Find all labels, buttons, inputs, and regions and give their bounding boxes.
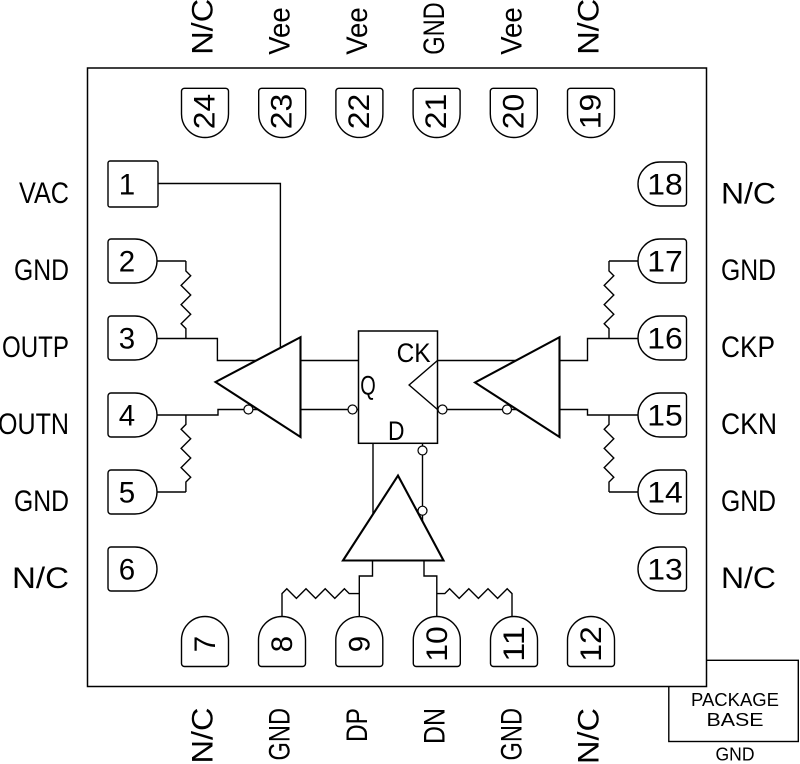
svg-text:GND: GND — [716, 744, 755, 764]
svg-text:N/C: N/C — [573, 708, 606, 764]
resistor R1 (pin2-pin3) — [181, 261, 191, 339]
pin 20 — [490, 88, 537, 137]
svg-text:3: 3 — [119, 323, 135, 356]
bubble at buffer A inverting output — [244, 405, 253, 414]
svg-text:DP: DP — [341, 708, 374, 742]
svg-text:14: 14 — [647, 477, 683, 510]
svg-text:CKN: CKN — [721, 408, 777, 441]
op-amp buffer C (data) — [343, 476, 444, 561]
chip package outline — [88, 68, 707, 687]
pin 22 — [336, 88, 383, 137]
wire flip-flop CK to buffer B (top) — [438, 360, 517, 362]
svg-text:15: 15 — [647, 400, 683, 433]
wire flip-flop D input — [372, 443, 374, 514]
flip-flop clock edge wedge — [409, 361, 437, 410]
svg-text:N/C: N/C — [721, 178, 776, 211]
wire pin3 OUTP to buffer A — [157, 339, 256, 361]
wire buffer A to flip-flop Q (top) — [301, 360, 359, 362]
svg-text:N/C: N/C — [187, 0, 220, 55]
svg-text:18: 18 — [647, 169, 683, 202]
svg-text:CK: CK — [397, 338, 431, 368]
resistor R3 (pin17-pin16) — [604, 261, 614, 339]
pin 1 — [108, 161, 158, 207]
pin 9 — [336, 617, 383, 667]
pin 16 — [638, 316, 686, 360]
pin 14 — [638, 470, 687, 514]
pin 6 — [108, 547, 157, 591]
svg-text:10: 10 — [421, 626, 454, 662]
pin 8 — [259, 616, 306, 666]
svg-text:1: 1 — [119, 169, 135, 202]
svg-text:DN: DN — [418, 708, 451, 744]
svg-text:11: 11 — [498, 626, 531, 662]
svg-text:23: 23 — [266, 94, 299, 130]
pin 19 — [568, 88, 615, 137]
wire buffer C right output to pin10 DN — [424, 561, 437, 617]
wire pin4 OUTN to buffer A — [157, 410, 258, 416]
svg-text:8: 8 — [266, 636, 299, 652]
svg-text:20: 20 — [497, 94, 530, 130]
pin 5 — [108, 470, 157, 514]
pin 3 — [108, 316, 157, 360]
svg-text:GND: GND — [721, 485, 776, 518]
svg-text:7: 7 — [189, 636, 222, 652]
bubble at buffer B inverting output — [503, 405, 512, 414]
svg-text:9: 9 — [343, 636, 376, 652]
svg-text:Vee: Vee — [495, 7, 528, 55]
pin 23 — [259, 88, 306, 137]
bubble below flip-flop — [418, 446, 427, 455]
pin 18 — [638, 162, 687, 206]
svg-text:12: 12 — [575, 626, 608, 662]
svg-text:16: 16 — [647, 323, 683, 356]
svg-text:N/C: N/C — [187, 708, 220, 764]
pin 7 — [182, 616, 229, 666]
op-amp buffer B (clock) — [475, 337, 560, 437]
resistor R6 (pin10-pin11) — [437, 589, 512, 616]
svg-text:VAC: VAC — [19, 177, 69, 210]
svg-text:4: 4 — [119, 400, 135, 433]
op-amp buffer A (output) — [216, 337, 301, 437]
resistor R2 (pin4-pin5) — [181, 415, 191, 492]
pin 12 — [568, 616, 615, 666]
svg-text:BASE: BASE — [707, 709, 764, 730]
svg-text:2: 2 — [119, 246, 135, 279]
svg-text:N/C: N/C — [721, 562, 776, 595]
flip-flop U1 — [359, 331, 438, 446]
svg-text:GND: GND — [14, 254, 69, 287]
pin 21 — [413, 88, 460, 137]
bubble at buffer C inverting output — [418, 506, 427, 515]
pin 4 — [108, 393, 157, 437]
wire buffer A to flip-flop Qbar (bottom) — [301, 409, 359, 411]
bubble at flip-flop Qbar — [348, 405, 357, 414]
svg-text:17: 17 — [647, 246, 683, 279]
wire pin16 CKP to buffer B — [560, 339, 639, 361]
resistor R4 (pin15-pin14) — [604, 415, 614, 492]
svg-text:19: 19 — [575, 94, 608, 130]
wire buffer C left output to pin9 DP — [359, 561, 372, 617]
pin 15 — [638, 393, 687, 437]
package base box — [669, 660, 799, 741]
svg-text:N/C: N/C — [12, 562, 69, 595]
svg-text:GND: GND — [264, 708, 297, 761]
svg-text:21: 21 — [420, 94, 453, 130]
svg-text:5: 5 — [119, 477, 135, 510]
resistor R5 (pin8-pin9) — [282, 589, 359, 616]
bubble at flip-flop CKbar — [438, 405, 447, 414]
svg-text:Vee: Vee — [264, 7, 297, 55]
pin 10 — [413, 616, 460, 666]
wire flip-flop CKbar to buffer B (bottom) — [438, 409, 517, 411]
svg-text:6: 6 — [119, 554, 135, 587]
pin 24 — [182, 88, 229, 137]
svg-text:GND: GND — [418, 2, 451, 54]
wire pin15 CKN to buffer B — [560, 410, 639, 416]
pin 2 — [108, 239, 157, 283]
wire pin14 stub — [609, 491, 638, 493]
svg-text:GND: GND — [496, 708, 529, 761]
svg-text:PACKAGE: PACKAGE — [691, 689, 779, 710]
svg-text:OUTN: OUTN — [0, 408, 69, 441]
wire pin17 stub — [609, 260, 638, 262]
svg-text:GND: GND — [14, 485, 69, 518]
wire pin5 stub — [157, 491, 186, 493]
wire pin1 VAC to buffer A — [158, 184, 280, 348]
svg-text:CKP: CKP — [721, 331, 775, 364]
svg-text:13: 13 — [647, 554, 683, 587]
svg-text:24: 24 — [189, 94, 222, 130]
svg-text:D: D — [388, 416, 405, 446]
wire pin2 stub — [157, 260, 186, 262]
pin 13 — [638, 547, 687, 591]
pin 11 — [491, 616, 538, 666]
svg-text:Q: Q — [360, 370, 376, 400]
wire feedback to buffer C — [422, 443, 424, 521]
svg-text:N/C: N/C — [573, 0, 606, 55]
svg-text:GND: GND — [721, 254, 776, 287]
svg-text:Vee: Vee — [341, 7, 374, 55]
svg-text:22: 22 — [343, 94, 376, 130]
pin 17 — [638, 239, 687, 283]
svg-text:OUTP: OUTP — [2, 331, 69, 364]
